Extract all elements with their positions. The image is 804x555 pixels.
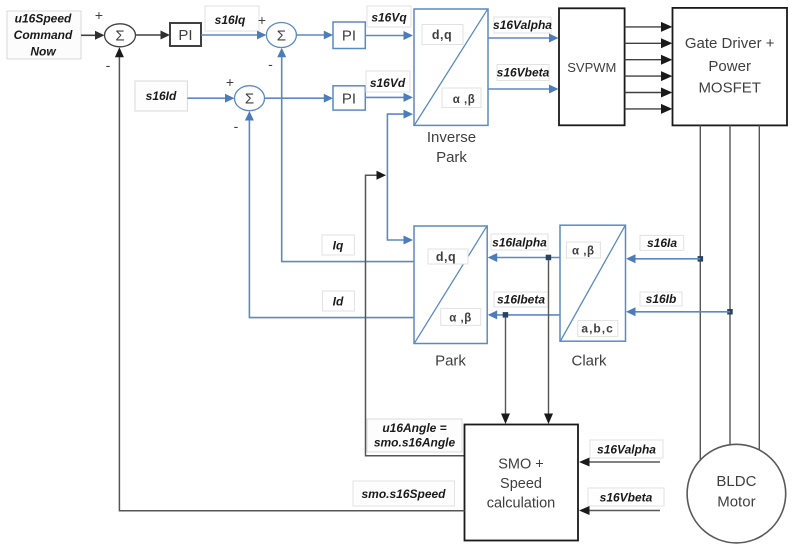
svg-text:s16Vq: s16Vq [371,11,407,25]
block: Clark transform [560,225,626,341]
wire: Inverse Park to SVPWM (s16Vbeta) [488,85,559,94]
wire: Inverse Park to SVPWM (s16Valpha) [488,34,559,43]
svg-text:Speed: Speed [500,476,542,492]
svg-text:s16Valpha: s16Valpha [597,443,656,457]
wires: SVPWM to Gate Driver (6 PWM lines) [625,22,673,114]
svg-text:s16Vbeta: s16Vbeta [497,66,550,80]
svg-text:s16Id: s16Id [146,89,177,103]
block: Inverse Park transform [414,9,488,125]
wire: s16Ialpha tap down to SMO [544,260,553,424]
label: s16Iq [205,6,259,31]
block: PI2 q-axis current regulator [333,22,365,49]
svg-text:PI: PI [342,28,356,45]
node: tap on phase B [727,309,733,315]
wire: motor phase A line [699,125,701,460]
wire: S2 to PI2 [296,31,333,40]
svg-text:-: - [234,118,239,134]
svg-text:Σ: Σ [245,91,254,108]
svg-text:PI: PI [342,91,356,108]
label: s16Ialpha [491,234,548,250]
svg-text:+: + [258,12,266,28]
svg-text:α ,β: α ,β [572,246,594,258]
svg-text:Park: Park [435,353,466,370]
svg-text:s16Ialpha: s16Ialpha [492,236,547,250]
svg-text:s16Ia: s16Ia [647,236,677,250]
block: PI1 speed regulator [170,23,201,46]
block: Gate Driver + Power MOSFET [673,8,788,126]
wire: SMO speed output feedback to S1 [115,47,465,511]
label: s16Valpha (SMO input) [590,440,663,458]
block: Park transform [414,226,487,344]
block: u16Speed Command Now input box [7,11,81,59]
node: s16Ialpha tap [546,255,552,261]
label: s16Vq [367,6,411,27]
svg-text:PI: PI [178,27,192,44]
svg-text:Σ: Σ [277,27,286,44]
wire: s16Id to summing junction S3 [187,94,234,103]
wire: S3 to PI3 [265,94,333,103]
svg-text:Inverse: Inverse [427,129,476,146]
svg-text:α ,β: α ,β [453,94,475,106]
svg-text:Σ: Σ [115,28,124,45]
block: s16Id reference box [135,81,187,111]
wire: Clark to Park (s16Ialpha) [488,253,560,262]
svg-text:Park: Park [436,149,467,166]
svg-text:s16Ibeta: s16Ibeta [497,293,545,307]
wire: PI2 to Inverse Park [365,31,413,40]
wire: phase B tap to Clark (s16Ib) [626,307,730,316]
svg-text:BLDC: BLDC [716,473,756,490]
summing junction S2 (q-axis current) [266,23,296,48]
svg-text:-: - [106,57,111,73]
label: u16Angle = smo.s16Angle [367,419,462,452]
svg-text:s16Iq: s16Iq [215,13,246,27]
block: SMO + Speed calculation [465,425,579,541]
label: s16Vbeta (SMO input) [588,488,664,506]
wire: motor phase C line [758,125,760,450]
svg-text:s16Vd: s16Vd [370,76,406,90]
wire: PI1 to summing junction S2 [201,31,266,40]
svg-text:s16Ib: s16Ib [646,292,677,306]
wire: s16Ibeta tap down to SMO [501,317,510,424]
label: s16Vbeta (top) [497,65,550,81]
svg-text:Id: Id [333,295,344,309]
svg-text:+: + [226,74,234,90]
svg-text:Command: Command [14,28,73,42]
svg-text:Motor: Motor [717,494,755,511]
caption: Inverse Park [427,129,476,166]
node: s16Ibeta tap [503,312,509,318]
wire: s16Vbeta into SMO [579,506,660,515]
label: s16Vd [366,71,410,92]
wire: phase A tap to Clark (s16Ia) [626,254,700,263]
label: s16Ib [640,292,682,306]
svg-text:a,b,c: a,b,c [581,322,613,336]
block: SVPWM [559,8,625,125]
wire: Park Iq output feedback to S2 [277,48,414,262]
summing junction S3 (d-axis current) [235,86,265,111]
label: s16Valpha (top) [493,17,552,33]
node: tap on phase A [698,256,704,262]
svg-text:Now: Now [30,45,56,59]
svg-text:SMO +: SMO + [498,457,544,473]
svg-text:smo.s16Angle: smo.s16Angle [374,436,456,450]
wire: SMO angle output to angle bus [366,171,465,456]
svg-text:MOSFET: MOSFET [698,80,761,97]
svg-text:s16Valpha: s16Valpha [493,18,552,32]
wire: PI3 to Inverse Park [365,93,413,102]
summing junction S1 (speed loop) [105,24,136,47]
label: smo.s16Speed [353,481,455,506]
svg-text:u16Angle =: u16Angle = [382,421,446,435]
wire: motor phase B line [729,125,731,445]
svg-text:Gate Driver +: Gate Driver + [685,35,775,52]
label: s16Ibeta [494,292,548,307]
svg-text:smo.s16Speed: smo.s16Speed [361,487,446,501]
svg-text:-: - [268,56,273,72]
wire: s16Valpha into SMO [579,458,660,467]
label: Iq [322,235,354,255]
svg-text:Iq: Iq [333,239,344,253]
wire: S1 to PI1 [136,31,171,40]
svg-text:calculation: calculation [487,496,556,512]
svg-text:s16Vbeta: s16Vbeta [600,491,653,505]
wire: command to summing junction S1 [81,31,105,40]
wire: angle bus to Inverse Park and Park [387,110,413,245]
svg-text:d,q: d,q [432,28,452,42]
wire: Park Id output feedback to S3 [245,111,414,318]
svg-text:Power: Power [708,58,751,75]
svg-text:Clark: Clark [571,353,607,370]
svg-text:+: + [95,7,103,23]
block: PI3 d-axis current regulator [333,86,365,110]
label: s16Ia [640,235,684,250]
label: Id [323,291,355,311]
block: BLDC Motor [687,444,786,543]
svg-text:d,q: d,q [436,250,456,264]
wire: Clark to Park (s16Ibeta) [488,310,560,319]
svg-text:α ,β: α ,β [449,313,471,325]
svg-text:SVPWM: SVPWM [567,60,616,75]
svg-text:u16Speed: u16Speed [15,12,72,26]
